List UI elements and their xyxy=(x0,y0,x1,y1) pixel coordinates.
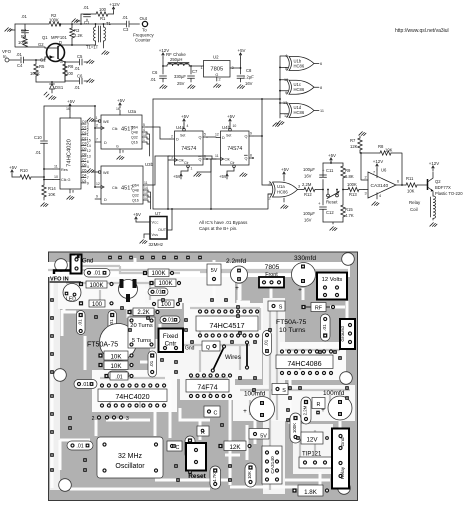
svg-text:7: 7 xyxy=(87,176,89,180)
svg-text:.01: .01 xyxy=(77,319,83,326)
svg-text:Q: Q xyxy=(199,136,202,140)
svg-text:1.8K: 1.8K xyxy=(304,489,318,496)
PCB trace w41 xyxy=(321,342,324,352)
PCB label FT50A-75 b xyxy=(276,319,306,334)
resistor R6 xyxy=(62,61,75,83)
op-amp U6 CA3140 xyxy=(364,168,402,200)
PCB capacitor .01 a xyxy=(84,269,110,278)
svg-text:G: G xyxy=(215,73,218,77)
svg-text:74HC4086: 74HC4086 xyxy=(287,359,321,368)
PCB trace g1 xyxy=(70,266,180,273)
PCB pads row 2-3 xyxy=(92,415,129,422)
+5V supply xyxy=(238,48,246,58)
PCB pad Gnd xyxy=(75,254,93,265)
wire top rail xyxy=(15,23,140,25)
svg-text:9: 9 xyxy=(96,195,98,199)
svg-text:7: 7 xyxy=(96,138,98,142)
resistor R13 xyxy=(343,182,364,197)
svg-text:11: 11 xyxy=(54,165,58,169)
PCB jumper 5V b xyxy=(249,429,269,440)
svg-text:330μF: 330μF xyxy=(174,74,186,79)
svg-text:C2: C2 xyxy=(21,28,27,33)
PCB capacitor .01 vert c xyxy=(148,351,157,377)
PCB connector Fixed Cntr xyxy=(159,329,184,353)
svg-text:11: 11 xyxy=(215,154,219,158)
svg-text:100K: 100K xyxy=(18,40,28,45)
PCB capacitor C b xyxy=(167,441,182,451)
svg-text:8: 8 xyxy=(320,86,322,90)
PCB turns box xyxy=(128,317,155,348)
svg-text:Gnd: Gnd xyxy=(340,437,346,446)
svg-text:G: G xyxy=(116,145,119,149)
svg-text:6: 6 xyxy=(204,155,206,159)
svg-text:+: + xyxy=(235,285,239,292)
svg-text:R: R xyxy=(317,402,321,408)
PCB connector 12 Volts xyxy=(317,273,347,300)
PCB trace w13 xyxy=(117,362,120,370)
svg-text:10: 10 xyxy=(233,124,237,128)
PCB capacitor 100mfd b xyxy=(321,390,352,420)
svg-text:.01: .01 xyxy=(115,375,122,381)
svg-text:Clk: Clk xyxy=(112,127,118,131)
svg-text:Q5: Q5 xyxy=(82,168,87,172)
LED DS1 xyxy=(44,84,64,97)
wire C11 rail xyxy=(323,162,343,164)
svg-text:R5: R5 xyxy=(39,64,45,69)
PCB mounting hole 1 xyxy=(55,259,68,272)
PCB trace w11 xyxy=(230,486,318,489)
svg-text:Wires: Wires xyxy=(225,354,241,361)
svg-text:10K: 10K xyxy=(407,189,415,194)
PCB copper zone top band xyxy=(44,262,350,277)
PCB trace w5 xyxy=(270,288,273,298)
svg-text:R11: R11 xyxy=(406,176,414,181)
svg-text:12: 12 xyxy=(87,149,91,153)
svg-text:2: 2 xyxy=(171,135,173,139)
svg-text:4.7K: 4.7K xyxy=(345,213,354,218)
svg-text:100: 100 xyxy=(99,7,107,12)
PCB trace g15 xyxy=(240,389,350,391)
svg-text:10: 10 xyxy=(284,78,288,82)
svg-text:12: 12 xyxy=(96,182,100,186)
PCB trace g18 xyxy=(100,377,165,379)
PCB trace w2 xyxy=(158,324,160,330)
PCB pads scattered xyxy=(50,256,349,482)
ground U4a xyxy=(194,173,201,177)
svg-text:S: S xyxy=(60,59,63,64)
ground U4b xyxy=(240,173,247,177)
PCB trace g20 xyxy=(139,395,141,408)
PCB trace g10 xyxy=(239,345,241,370)
PCB trace w27 xyxy=(319,472,322,485)
PCB connector Relay Gnd xyxy=(332,429,349,489)
svg-text:100: 100 xyxy=(92,302,103,308)
PCB copper zone left strip xyxy=(50,277,60,490)
svg-text:12 Volts: 12 Volts xyxy=(322,277,343,283)
PCB trace g13 xyxy=(285,349,340,351)
svg-text:T1=1T: T1=1T xyxy=(86,45,99,50)
ground T1 xyxy=(102,51,109,55)
svg-text:25V: 25V xyxy=(177,81,185,86)
svg-text:Q48: Q48 xyxy=(131,130,138,134)
IC U7 32MHz oscillator xyxy=(150,209,172,239)
svg-text:+: + xyxy=(318,201,321,206)
PCB capacitor .01 c xyxy=(160,316,180,324)
op-amp U1b HC86 xyxy=(285,54,322,71)
svg-text:74F74: 74F74 xyxy=(197,383,217,392)
svg-text:.01: .01 xyxy=(154,290,161,296)
PCB copper zone 4020 xyxy=(92,370,177,412)
svg-text:D: D xyxy=(222,136,225,140)
svg-text:C3: C3 xyxy=(123,27,129,32)
PCB trace w0 xyxy=(51,282,54,488)
op-amp U1a HC86 xyxy=(268,181,302,201)
PCB connector Ground xyxy=(340,319,355,349)
PCB trace g11 xyxy=(269,310,271,490)
svg-text:74HC4517: 74HC4517 xyxy=(209,321,244,330)
ground C6b xyxy=(87,79,94,83)
PCB capacitor .01 g xyxy=(67,441,93,450)
svg-text:C12: C12 xyxy=(326,210,334,215)
resistor R1 xyxy=(87,7,114,21)
svg-text:6: 6 xyxy=(397,180,399,184)
svg-text:7: 7 xyxy=(373,171,375,175)
ground U3a WE xyxy=(87,118,95,122)
PCB trace w18 xyxy=(339,418,342,428)
PCB trace w8 xyxy=(324,342,327,350)
PCB LED xyxy=(63,284,81,303)
PCB resistor 10K b xyxy=(98,361,133,370)
PCB mounting hole 6 xyxy=(338,482,351,495)
svg-text:+5V: +5V xyxy=(328,153,336,158)
svg-text:20 Turns: 20 Turns xyxy=(130,323,153,329)
PCB resistor 100K a xyxy=(79,281,114,289)
svg-text:C8: C8 xyxy=(246,68,252,73)
svg-text:R15: R15 xyxy=(345,207,353,212)
svg-text:Q4: Q4 xyxy=(82,174,87,178)
svg-text:10: 10 xyxy=(54,175,58,179)
PCB resistor 100K b xyxy=(143,269,174,277)
svg-text:HC86: HC86 xyxy=(294,64,305,69)
svg-text:Res: Res xyxy=(61,168,68,172)
ground U3a xyxy=(117,156,124,160)
PCB trace w33 xyxy=(213,260,216,303)
svg-text:+5V: +5V xyxy=(67,99,75,104)
svg-text:10K: 10K xyxy=(48,192,56,197)
svg-text:12: 12 xyxy=(284,114,288,118)
svg-text:1: 1 xyxy=(269,181,271,185)
svg-text:+5V: +5V xyxy=(227,114,235,119)
VFO input xyxy=(2,49,20,62)
+5V U3a xyxy=(117,98,125,108)
PCB copper zone upper mid xyxy=(143,277,235,303)
svg-text:Reset: Reset xyxy=(326,200,338,205)
ground input left xyxy=(5,28,15,32)
svg-text:32 MHz: 32 MHz xyxy=(118,453,143,460)
svg-text:74HC4020: 74HC4020 xyxy=(67,139,73,167)
svg-text:100μF: 100μF xyxy=(303,167,315,172)
svg-text:+: + xyxy=(322,168,325,173)
svg-text:Clr: Clr xyxy=(184,161,189,165)
svg-text:2: 2 xyxy=(269,197,271,201)
PCB trace w22 xyxy=(104,276,107,282)
svg-text:Gnd: Gnd xyxy=(185,346,195,352)
PCB copper zone wires xyxy=(150,339,262,379)
svg-text:9: 9 xyxy=(285,91,287,95)
svg-text:2.2M: 2.2M xyxy=(303,405,308,415)
PCB resistor 10K a xyxy=(98,351,133,360)
PCB mounting hole 3 xyxy=(54,369,67,382)
transistor Q1 MPF101 xyxy=(38,35,67,64)
PCB trace w6 xyxy=(302,288,305,300)
svg-text:Coil: Coil xyxy=(410,207,418,212)
PCB regulator 7805 xyxy=(259,264,284,288)
svg-text:C: C xyxy=(214,411,218,417)
svg-text:10K: 10K xyxy=(110,353,122,360)
svg-text:12K: 12K xyxy=(350,144,358,149)
svg-text:.01: .01 xyxy=(150,77,156,82)
PCB trace g21 xyxy=(190,377,228,379)
svg-text:2: 2 xyxy=(219,78,221,82)
svg-text:8: 8 xyxy=(250,154,252,158)
resistor R9 xyxy=(341,163,354,190)
svg-text:1: 1 xyxy=(96,116,98,120)
svg-text:8: 8 xyxy=(72,190,74,194)
svg-text:WE: WE xyxy=(103,171,110,175)
svg-text:4: 4 xyxy=(87,165,89,169)
svg-text:DS1: DS1 xyxy=(55,85,64,90)
PCB trace g22 xyxy=(209,385,211,395)
PCB trace w1 xyxy=(127,300,130,318)
resistor R11 xyxy=(402,176,428,194)
ground C6 xyxy=(160,85,167,89)
svg-text:G2: G2 xyxy=(38,42,44,47)
PCB jumper S a xyxy=(268,301,285,311)
svg-text:10K: 10K xyxy=(247,471,252,479)
IC U4a 74S74 xyxy=(170,124,207,171)
wire bottom long xyxy=(153,194,272,210)
svg-text:Q: Q xyxy=(206,345,210,351)
resistor R4 xyxy=(18,34,28,47)
PCB resistor 100K vert xyxy=(290,413,301,443)
PCB resistor 1.8K xyxy=(292,485,329,496)
+5V R10 xyxy=(9,165,17,177)
wire C12 bottom xyxy=(323,222,343,224)
PCB trace g9 xyxy=(199,350,201,372)
ground U7 xyxy=(140,234,150,244)
svg-text:+12V: +12V xyxy=(109,2,119,7)
resistor R15 xyxy=(341,189,354,222)
svg-text:R13: R13 xyxy=(349,192,357,197)
PCB toroid T1 xyxy=(100,324,137,361)
wire clk feed xyxy=(43,106,95,180)
PCB copper zone caps xyxy=(233,385,355,421)
svg-text:4.7K: 4.7K xyxy=(212,473,217,482)
PCB resistor 12K xyxy=(218,441,251,451)
PCB trace w10 xyxy=(229,398,232,485)
svg-text:5V: 5V xyxy=(260,434,267,440)
+12V supply xyxy=(109,2,119,14)
PCB jumper R b xyxy=(312,398,325,415)
svg-text:+5V: +5V xyxy=(281,167,289,172)
ground C1 xyxy=(72,19,80,23)
PCB trace g14 xyxy=(299,355,301,370)
svg-text:.01: .01 xyxy=(93,271,100,277)
svg-text:.01: .01 xyxy=(322,324,328,331)
PCB jumper 12V xyxy=(296,432,329,444)
wire U4a Q to U4b D xyxy=(207,136,216,139)
svg-text:2.2μF: 2.2μF xyxy=(243,75,254,80)
ground U2 xyxy=(214,84,221,88)
svg-text:2.2K: 2.2K xyxy=(74,33,83,38)
svg-text:.01: .01 xyxy=(122,15,128,20)
ground C8 xyxy=(237,85,244,89)
+5V U4b set xyxy=(227,114,235,124)
svg-text:100K: 100K xyxy=(151,271,165,277)
PCB trace w36 xyxy=(140,361,150,364)
svg-text:6: 6 xyxy=(87,160,89,164)
svg-text:OUT: OUT xyxy=(158,228,167,232)
PCB IC 74F74 xyxy=(186,373,232,398)
PCB trace w30 xyxy=(95,420,98,436)
svg-text:100K: 100K xyxy=(49,18,59,23)
PCB capacitor C a xyxy=(204,406,220,417)
wire U4b Q to U1a xyxy=(252,98,271,185)
svg-text:4: 4 xyxy=(285,54,287,58)
svg-text:6.8K: 6.8K xyxy=(345,174,354,179)
svg-text:10K: 10K xyxy=(110,363,122,370)
PCB trace w20 xyxy=(183,339,196,342)
svg-text:T1: T1 xyxy=(106,21,112,26)
svg-text:100: 100 xyxy=(66,71,74,76)
svg-text:Q64: Q64 xyxy=(132,183,139,187)
+5V U4b clr xyxy=(219,171,234,179)
PCB trace g6 xyxy=(190,308,260,330)
svg-text:13: 13 xyxy=(283,101,287,105)
svg-text:100K: 100K xyxy=(347,182,357,187)
svg-text:HC86: HC86 xyxy=(277,190,288,195)
+12V Q2 xyxy=(429,161,439,171)
transistor Q2 xyxy=(428,172,464,196)
PCB trace g23 xyxy=(299,430,301,468)
capacitor C7 xyxy=(174,66,198,86)
svg-text:Oscillator: Oscillator xyxy=(115,463,145,470)
svg-text:.01: .01 xyxy=(264,339,270,346)
svg-text:2: 2 xyxy=(92,416,95,422)
PCB connector Reset xyxy=(186,443,207,480)
PCB trace w28 xyxy=(60,439,90,442)
svg-text:+5V: +5V xyxy=(173,174,181,179)
PCB trace w7 xyxy=(346,301,349,318)
svg-text:http://www.qsl.net/va3iul: http://www.qsl.net/va3iul xyxy=(395,28,449,34)
capacitor C6 xyxy=(150,65,167,82)
ground U3b WE xyxy=(87,169,95,173)
svg-text:S: S xyxy=(282,388,286,394)
svg-text:Clk: Clk xyxy=(112,186,118,190)
PCB jumper 5V a xyxy=(207,264,221,285)
capacitor C11 xyxy=(303,163,334,190)
svg-text:9: 9 xyxy=(87,181,89,185)
svg-text:Q32: Q32 xyxy=(132,193,139,197)
svg-text:100K: 100K xyxy=(89,283,103,289)
resistor R2 xyxy=(49,13,61,26)
svg-text:74S74: 74S74 xyxy=(181,146,196,152)
svg-text:+5V: +5V xyxy=(9,165,17,170)
PCB trace g0 xyxy=(48,269,348,271)
svg-text:14: 14 xyxy=(144,186,148,190)
svg-text:1: 1 xyxy=(191,167,193,171)
PCB trace g12 xyxy=(276,310,278,420)
PCB oscillator 32MHz xyxy=(97,437,163,478)
PCB trace w12 xyxy=(169,380,172,438)
PCB copper zone 74F74 xyxy=(180,370,235,400)
svg-text:U3a: U3a xyxy=(128,109,137,114)
PCB trace w23 xyxy=(64,308,76,312)
svg-text:U1a: U1a xyxy=(277,184,285,189)
svg-text:5V: 5V xyxy=(211,268,218,274)
svg-text:+12V: +12V xyxy=(373,159,383,164)
transformer T1 xyxy=(86,21,112,50)
PCB trace w9 xyxy=(289,378,292,424)
PCB capacitor 330mfd xyxy=(292,255,317,294)
PCB trace w15 xyxy=(111,336,114,352)
svg-text:U7: U7 xyxy=(155,211,161,216)
IC U4b 74S74 xyxy=(215,124,253,171)
svg-text:+: + xyxy=(298,287,302,294)
PCB resistor 100K c xyxy=(149,279,181,287)
wire U4b clk xyxy=(211,159,216,209)
PCB capacitor .01 f xyxy=(104,372,133,381)
PCB capacitor 100mfd a xyxy=(243,391,274,422)
svg-text:6: 6 xyxy=(320,62,322,66)
svg-text:R12: R12 xyxy=(304,192,312,197)
PCB trace w43 xyxy=(239,284,242,300)
op-amp U1d HC86 xyxy=(283,101,324,118)
svg-text:.01: .01 xyxy=(149,360,155,367)
relay coil K1 xyxy=(409,194,436,218)
PCB trace w37 xyxy=(246,425,249,460)
wire left branch xyxy=(15,24,38,47)
svg-text:D: D xyxy=(104,198,107,202)
svg-text:10 Turns: 10 Turns xyxy=(279,327,306,334)
PCB resistor 10K vert xyxy=(245,463,256,487)
PCB trace w39 xyxy=(106,419,150,422)
PCB trace w29 xyxy=(59,440,62,470)
PCB trace w19 xyxy=(155,479,228,482)
wire G2 xyxy=(38,47,45,48)
svg-text:C11: C11 xyxy=(326,168,334,173)
svg-text:11: 11 xyxy=(144,181,148,185)
PCB copper zone mid channel xyxy=(263,298,285,494)
svg-text:R9: R9 xyxy=(345,168,351,173)
svg-text:FT50A-75: FT50A-75 xyxy=(87,342,118,349)
PCB trace w42 xyxy=(134,258,137,264)
IC U5 74HC4020 xyxy=(53,107,91,194)
svg-text:C7: C7 xyxy=(192,69,198,74)
PCB capacitor 2.2mfd xyxy=(226,258,248,292)
svg-text:WE: WE xyxy=(103,120,110,124)
svg-text:11: 11 xyxy=(320,109,324,113)
wire U3b output bundle xyxy=(148,190,151,209)
svg-text:.01: .01 xyxy=(74,85,80,90)
PCB resistor 2.2K xyxy=(127,308,159,316)
ground C5 xyxy=(87,60,94,64)
svg-text:VCC: VCC xyxy=(152,221,160,225)
switch S1 Reset xyxy=(326,189,339,205)
wire source bypass xyxy=(64,61,88,81)
svg-text:10: 10 xyxy=(144,191,148,195)
wire bottom xyxy=(36,81,65,84)
